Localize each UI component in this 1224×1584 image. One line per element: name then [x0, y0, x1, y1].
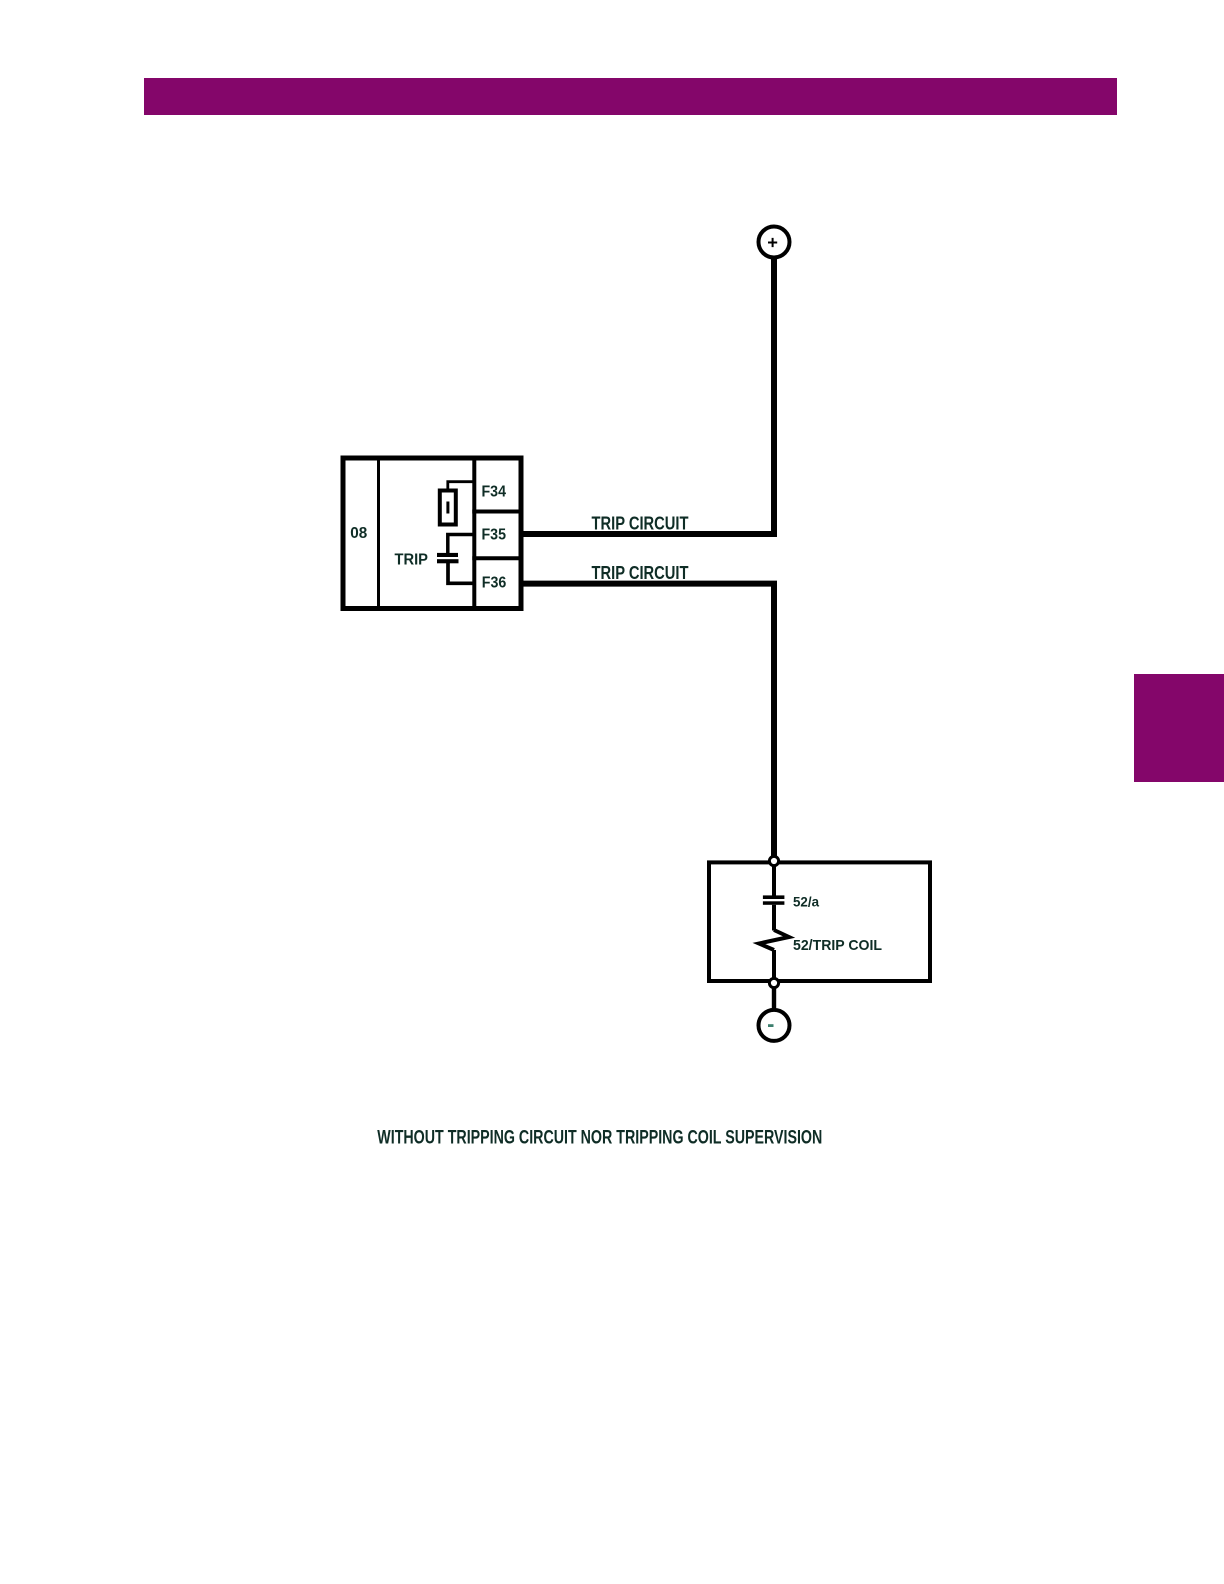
svg-text:F35: F35	[482, 527, 507, 544]
svg-text:52/a: 52/a	[793, 893, 819, 909]
svg-text:52/TRIP COIL: 52/TRIP COIL	[793, 937, 882, 954]
svg-text:08: 08	[350, 525, 367, 542]
svg-text:TRIP: TRIP	[395, 552, 429, 569]
svg-text:WITHOUT TRIPPING CIRCUIT NOR T: WITHOUT TRIPPING CIRCUIT NOR TRIPPING CO…	[377, 1126, 822, 1148]
svg-text:F36: F36	[482, 575, 507, 592]
svg-text:F34: F34	[482, 483, 507, 500]
svg-text:TRIP CIRCUIT: TRIP CIRCUIT	[592, 513, 689, 533]
svg-text:TRIP CIRCUIT: TRIP CIRCUIT	[592, 563, 689, 583]
